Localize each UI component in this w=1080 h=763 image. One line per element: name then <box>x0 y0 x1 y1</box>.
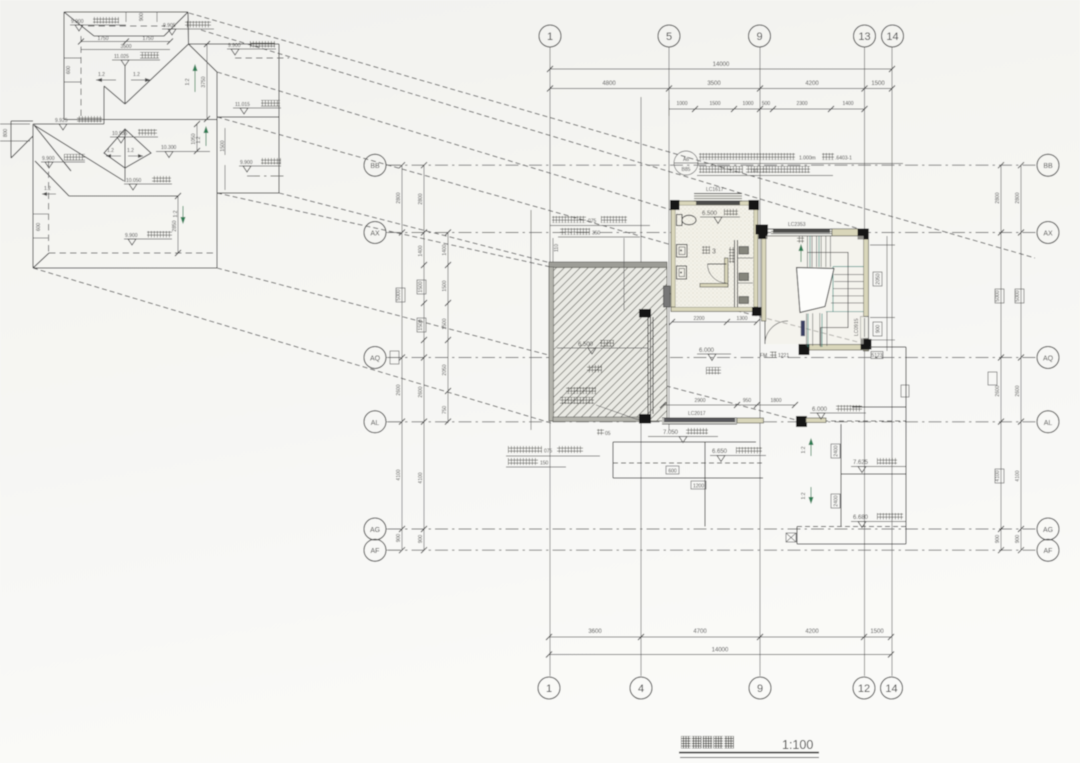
bubble AQ left <box>364 347 400 369</box>
pyramid roof diamond <box>104 129 151 168</box>
svg-text:1400: 1400 <box>418 245 424 256</box>
railing note at BB <box>674 151 903 176</box>
bottom dimension row 1: 3600/4700/4200/1500 <box>546 629 894 640</box>
flue wall lines <box>735 240 754 307</box>
rotated dim 2400 lower <box>831 494 840 508</box>
svg-text:6.000: 6.000 <box>812 407 828 413</box>
bubble 5 top <box>658 25 680 47</box>
svg-text:1: 1 <box>546 683 552 695</box>
left vertical dimension chain third <box>442 230 451 425</box>
svg-text:5: 5 <box>666 31 672 43</box>
far-left dim box <box>0 124 30 141</box>
svg-text:B85: B85 <box>682 167 691 173</box>
svg-text:1750: 1750 <box>142 36 153 42</box>
bathroom interior wall horizontal <box>700 284 728 288</box>
interior dim 2900/950/1800 <box>660 398 798 408</box>
bathroom interior wall vertical <box>725 258 729 287</box>
roof B dashed eave bottom <box>49 252 217 254</box>
svg-text:2800: 2800 <box>1015 192 1021 203</box>
roof B top edge <box>33 123 104 125</box>
dim chain right of stair <box>870 236 895 351</box>
top dimension row 2: 4800/3500/4200/1500 <box>547 81 895 92</box>
svg-text:075: 075 <box>588 219 597 225</box>
svg-text:1200: 1200 <box>693 484 704 490</box>
level marker 11.025 wuji <box>112 52 160 66</box>
svg-text:1.000m: 1.000m <box>799 156 816 162</box>
svg-text:2050: 2050 <box>442 364 448 375</box>
column stair TL <box>759 228 768 239</box>
svg-text:4700: 4700 <box>693 629 707 635</box>
grid line 9 (vertical) <box>759 47 761 676</box>
svg-text:900: 900 <box>139 13 145 22</box>
svg-text:5000: 5000 <box>995 290 1001 301</box>
svg-text:1500: 1500 <box>418 281 424 292</box>
grid row AL (dash-dot) <box>388 421 1036 423</box>
bubble AG left <box>364 518 400 540</box>
bubble AQ right <box>1037 347 1059 369</box>
wall piece right of LC2353 <box>832 229 859 236</box>
roof A bottom edge <box>64 119 217 121</box>
level marker 6.680 qipodian <box>851 513 906 528</box>
dim 600 vertical (roof B left) <box>33 214 48 238</box>
column bathroom right-mid <box>756 225 769 235</box>
level marker 6.000 qipodian (right) <box>810 405 866 419</box>
svg-text:2200: 2200 <box>693 316 704 322</box>
teal slope arrow down (right roof) <box>801 487 814 504</box>
svg-text:LC0915: LC0915 <box>854 318 860 336</box>
svg-text:14: 14 <box>886 31 898 43</box>
svg-text:6.500: 6.500 <box>702 211 718 217</box>
dim 2200/1300 below bathroom <box>669 316 760 325</box>
grid line 12/13 (vertical) <box>864 47 866 676</box>
svg-text:3600: 3600 <box>588 629 602 635</box>
svg-text:4100: 4100 <box>995 470 1001 481</box>
svg-text:9.905: 9.905 <box>163 23 176 29</box>
grid row AQ (dash-dot) <box>388 357 1036 359</box>
bubble 1 bottom <box>538 677 560 699</box>
column at partition bottom <box>639 414 651 424</box>
svg-text:1750: 1750 <box>97 36 108 42</box>
level marker 11.015 wuji (right wing) <box>233 100 281 114</box>
bubble 13 top <box>854 25 876 47</box>
bubble AL left <box>364 411 400 433</box>
column bathroom TR <box>749 200 760 210</box>
bubble AX left <box>364 222 400 244</box>
projection dashed line V2 <box>217 268 796 420</box>
pyramid center vertical <box>124 129 126 182</box>
roof B left edge <box>32 124 34 268</box>
svg-text:1.2: 1.2 <box>44 186 51 192</box>
svg-text:1400: 1400 <box>442 244 448 255</box>
grid line 14 (vertical) <box>891 47 893 676</box>
bubble 4 bottom <box>630 677 652 699</box>
roof A right wing top edge <box>189 43 280 45</box>
svg-text:2600: 2600 <box>396 384 402 395</box>
terrace interior window partition <box>648 317 653 414</box>
svg-text:6.680: 6.680 <box>853 515 869 521</box>
lower-right roof outline <box>797 347 906 544</box>
svg-text:14000: 14000 <box>713 62 730 68</box>
svg-text:4200: 4200 <box>805 81 819 87</box>
rotated dim 2400 upper <box>831 444 840 458</box>
svg-text:5000: 5000 <box>1015 290 1021 301</box>
svg-text:110: 110 <box>554 244 560 252</box>
teal slope arrow down (roof B mid) <box>173 206 186 224</box>
svg-text:3750: 3750 <box>201 76 207 87</box>
roof B ridge long horizontal <box>69 195 178 197</box>
svg-text:AL: AL <box>371 420 380 427</box>
svg-text:1050: 1050 <box>191 133 197 144</box>
svg-text:1500: 1500 <box>220 140 226 151</box>
svg-text:A6: A6 <box>683 157 689 163</box>
svg-text:4200: 4200 <box>805 629 819 635</box>
svg-text:1000: 1000 <box>742 101 753 107</box>
svg-text:AG: AG <box>370 527 380 534</box>
svg-text:800: 800 <box>3 129 9 138</box>
svg-text:13: 13 <box>858 31 870 43</box>
bubble 1 top <box>539 25 561 47</box>
level marker 9.900 qipodian (roof A left) <box>70 17 126 31</box>
projection dashed line U5 <box>217 193 551 267</box>
svg-text:1:100: 1:100 <box>782 738 813 752</box>
svg-text:LC2353: LC2353 <box>788 222 806 228</box>
terrace label <box>587 365 602 373</box>
svg-text:9: 9 <box>757 683 763 695</box>
level marker 7.050 chuangtai <box>597 428 718 443</box>
svg-text:2600: 2600 <box>995 385 1001 396</box>
svg-text:AQ: AQ <box>370 356 381 363</box>
roof A central V valley right <box>125 44 189 104</box>
slope arrows 1.2 (roof A) <box>96 72 151 82</box>
slope 1.2 arrow (roof B left) <box>42 186 56 196</box>
roof B secondary diagonal <box>34 125 71 171</box>
window LC2017 (room bottom) <box>662 411 737 424</box>
drainage note bottom-left <box>506 446 600 467</box>
grid line 5 (vertical) <box>668 47 670 430</box>
wall right of LC2017 <box>737 418 764 423</box>
stair up arrow <box>797 236 804 262</box>
level marker 10.935 wuji (pyramid) <box>110 129 158 143</box>
svg-text:9.925: 9.925 <box>55 118 68 124</box>
roof A hip right <box>164 12 188 36</box>
svg-text:1300: 1300 <box>736 316 747 322</box>
stairwell interior tint <box>766 236 864 344</box>
sink 1 <box>677 245 688 258</box>
svg-text:950: 950 <box>743 398 752 404</box>
level marker 6.650 qipodian <box>710 447 766 462</box>
roof B bottom edge <box>33 267 217 269</box>
svg-text:9: 9 <box>756 31 762 43</box>
svg-text:1500: 1500 <box>871 81 885 87</box>
svg-text:9.900: 9.900 <box>228 43 241 49</box>
roof A upper eave line <box>94 35 164 37</box>
dim 600 vertical (roof A left) <box>64 58 81 82</box>
svg-text:1800: 1800 <box>770 398 781 404</box>
svg-text:9.900: 9.900 <box>240 160 253 166</box>
svg-text:1000: 1000 <box>676 101 687 107</box>
terrace drainage note <box>560 387 650 421</box>
svg-text:1.2: 1.2 <box>127 148 134 154</box>
svg-text:AL: AL <box>1044 420 1053 427</box>
svg-text:150: 150 <box>540 461 549 467</box>
room level marker 6.000 <box>697 348 731 361</box>
small dim box below stair BR col <box>871 352 883 360</box>
level marker 10.300 <box>156 145 210 158</box>
svg-text:10.050: 10.050 <box>126 178 142 184</box>
svg-text:350: 350 <box>592 231 601 237</box>
svg-text:1.2: 1.2 <box>107 148 114 154</box>
svg-text:12: 12 <box>858 683 870 695</box>
svg-text:4: 4 <box>638 683 644 695</box>
svg-text:2600: 2600 <box>1015 385 1021 396</box>
svg-text:6.500: 6.500 <box>578 342 594 348</box>
top dimension row 1: total 14000 <box>547 62 895 72</box>
stair landing door-frame mark (navy) <box>801 321 805 337</box>
svg-text:1500: 1500 <box>870 629 884 635</box>
svg-text:AX: AX <box>1043 231 1053 238</box>
svg-text:075: 075 <box>544 449 553 455</box>
projection dashed line U2 <box>201 30 866 231</box>
level marker 10.050 wuji <box>124 176 172 190</box>
bubble AG right <box>1037 518 1059 540</box>
svg-text:LC1617: LC1617 <box>706 187 724 193</box>
svg-text:11.025: 11.025 <box>114 54 129 60</box>
svg-text:10.935: 10.935 <box>112 131 128 137</box>
lower-left roof edge lines <box>613 442 763 527</box>
svg-text:4100: 4100 <box>418 472 424 483</box>
svg-text:4100: 4100 <box>1015 470 1021 481</box>
stair stringer outline <box>807 252 848 347</box>
stair top wall window LC2353 <box>766 222 860 236</box>
terrace level marker 6.500 <box>557 340 648 354</box>
svg-text:3500: 3500 <box>120 44 131 50</box>
svg-text:10.300: 10.300 <box>161 145 177 151</box>
roof A central V valley left <box>104 86 125 104</box>
grid line 4 (vertical) <box>640 97 642 676</box>
svg-text:2900: 2900 <box>694 398 705 404</box>
teal slope arrow up (roof B mid) <box>196 126 209 146</box>
svg-text:900: 900 <box>876 325 882 334</box>
svg-text:750: 750 <box>442 406 448 415</box>
svg-text:FM: FM <box>760 353 767 359</box>
top dimension row 3: sub dims 1000/1500/1000/500/2300/1400 <box>669 100 868 116</box>
svg-text:2050: 2050 <box>876 273 882 284</box>
svg-text:900: 900 <box>418 535 424 544</box>
dim 3500 (roof A) <box>81 44 170 50</box>
stair teal tread accents <box>808 236 864 347</box>
svg-text:BB: BB <box>1043 163 1053 170</box>
stair treads down-run vertical lines <box>807 312 827 346</box>
far-left wing outline <box>11 121 33 158</box>
svg-text:1500: 1500 <box>442 280 448 291</box>
stair treads up-run vertical lines <box>807 236 830 267</box>
wall stub right of AL column <box>806 418 826 423</box>
stair right wall <box>861 229 869 351</box>
bubble BB right <box>1037 154 1059 176</box>
roof A right wing bottom eave <box>217 192 279 194</box>
flue shaft 3 <box>739 297 749 304</box>
column stair BR <box>861 339 872 350</box>
svg-text:900: 900 <box>396 534 402 543</box>
bathroom door <box>708 264 727 283</box>
projection dashed line U4 <box>217 117 672 245</box>
roof A right wing right edge <box>278 44 280 193</box>
svg-text:1500: 1500 <box>709 101 720 107</box>
svg-text:1:2: 1:2 <box>801 492 807 499</box>
teal slope arrow up (right roof) <box>801 438 814 456</box>
bubble 14 bottom <box>881 677 903 699</box>
small dim text 600 <box>666 466 679 475</box>
svg-text:05: 05 <box>605 431 611 437</box>
svg-text:14000: 14000 <box>712 648 729 654</box>
chain text boxes <box>390 280 1024 483</box>
svg-text:7.625: 7.625 <box>853 460 869 466</box>
toilet <box>677 215 697 226</box>
grid row AX (dash-dot) <box>388 232 1036 234</box>
terrace hatched area <box>549 262 667 422</box>
svg-text:1.2: 1.2 <box>133 72 140 78</box>
svg-text:AQ: AQ <box>1043 356 1054 363</box>
flue shaft 2 <box>739 273 749 281</box>
column bathroom TL <box>670 200 680 210</box>
roof A dashed ridge offset <box>88 25 165 27</box>
svg-text:2400: 2400 <box>834 495 840 506</box>
svg-text:AF: AF <box>371 548 380 555</box>
vertical dim right wing <box>220 128 226 190</box>
bubble BB left <box>364 154 400 176</box>
window LC1617 (bathroom top) <box>694 187 742 205</box>
projection dashed line U3 <box>217 72 757 236</box>
roof B corner hip bottom-left <box>33 253 49 268</box>
roof A valley diagonal to wing <box>189 44 218 72</box>
projection dashed line U1 <box>189 13 1035 258</box>
svg-text:5000: 5000 <box>396 289 402 300</box>
svg-text:4100: 4100 <box>396 469 402 480</box>
svg-text:BB: BB <box>370 163 380 170</box>
projection dashed line V1 <box>33 268 551 423</box>
svg-text:2800: 2800 <box>396 192 402 203</box>
dim 1750+1750 (roof A) <box>78 36 173 45</box>
stair treads right-run horizontal lines <box>831 275 864 303</box>
bubble 12 bottom <box>853 677 875 699</box>
roof A right wing ridge <box>217 116 279 118</box>
slope arrow teal up (between wings) <box>185 64 198 92</box>
column at partition top <box>639 309 651 318</box>
svg-text:1:2: 1:2 <box>185 78 191 85</box>
shaft label rotated <box>729 247 735 263</box>
svg-text:1: 1 <box>547 31 553 43</box>
svg-text:AX: AX <box>370 231 380 238</box>
svg-text:2800: 2800 <box>418 193 424 204</box>
svg-text:2400: 2400 <box>834 445 840 456</box>
vertical dim chain x207 (roof A) <box>201 41 210 122</box>
svg-text:5123: 5123 <box>871 353 882 359</box>
small dim text 1200 <box>691 481 706 490</box>
svg-text:1221: 1221 <box>778 353 789 359</box>
roof A dashed eave vertical <box>80 36 82 120</box>
svg-text:2800: 2800 <box>995 192 1001 203</box>
svg-text:4800: 4800 <box>602 81 616 87</box>
roof B small hip left <box>35 161 69 196</box>
bubble 9 bottom <box>749 677 771 699</box>
bubble AF left <box>364 539 400 561</box>
svg-text:900: 900 <box>995 535 1001 544</box>
aux vertical line left of grid 1 <box>530 210 532 430</box>
vertical dim chain (roof B right) <box>191 121 200 154</box>
svg-text:3500: 3500 <box>707 81 721 87</box>
right vertical dimension chain outer <box>1015 162 1024 553</box>
roof B right edge <box>216 193 218 268</box>
roof A right step vertical <box>187 12 190 44</box>
column stair BL <box>799 344 810 355</box>
projection dashed line U6 <box>279 193 858 342</box>
svg-text:1400: 1400 <box>842 101 853 107</box>
svg-text:LC2017: LC2017 <box>688 411 706 417</box>
right vertical dimension chain inner <box>995 162 1004 553</box>
column stair TR <box>858 229 869 240</box>
level marker 9.900 qipodian (right wing lower) <box>239 158 284 176</box>
grid row AG (dash-dot) <box>388 528 1036 530</box>
level marker 9.925 qipodian <box>54 116 103 130</box>
svg-text:1:2: 1:2 <box>801 446 807 453</box>
svg-text:1.2: 1.2 <box>98 72 105 78</box>
small dim box top (roof A) <box>126 12 157 22</box>
vertical dim chain (roof B lower right) <box>172 193 181 256</box>
svg-text:2600: 2600 <box>418 386 424 397</box>
bubble AF right <box>1037 539 1059 561</box>
svg-text:.6403-1: .6403-1 <box>835 156 852 162</box>
svg-text:3: 3 <box>712 249 716 256</box>
grid line 1 (vertical) <box>549 47 551 676</box>
bubble 9 top <box>749 25 771 47</box>
svg-text:14: 14 <box>885 683 897 695</box>
roof B dashed vertical <box>48 161 50 253</box>
svg-text:600: 600 <box>36 223 42 232</box>
grid row AF (dash-dot) <box>388 549 1036 551</box>
bathroom outer walls <box>671 201 758 312</box>
svg-text:6.650: 6.650 <box>712 449 728 455</box>
stair bottom wall <box>802 345 869 351</box>
svg-text:110: 110 <box>750 169 758 175</box>
roof A ridge vertical <box>124 66 126 104</box>
bubble AX right <box>1037 222 1059 244</box>
roof B main valley diagonal <box>34 125 124 181</box>
svg-text:11.015: 11.015 <box>235 102 250 108</box>
column grid9/AL <box>796 416 807 427</box>
drainage note upper-left <box>550 216 650 310</box>
stair left wall piece <box>762 236 767 321</box>
svg-text:900: 900 <box>1015 535 1021 544</box>
level marker 9.905 qipodian (roof A right) <box>162 21 214 35</box>
door FM label <box>760 352 789 360</box>
svg-text:7.050: 7.050 <box>663 430 679 436</box>
stair void polygon <box>797 268 835 313</box>
level marker 9.900 qipodian (roof B bottom) <box>124 231 172 245</box>
svg-text:9.900: 9.900 <box>71 19 84 25</box>
svg-text:9.900: 9.900 <box>125 233 138 239</box>
title underline double <box>679 736 819 758</box>
sink 2 <box>677 266 687 279</box>
roof A hip left <box>64 12 94 36</box>
svg-text:500: 500 <box>762 101 771 107</box>
left vertical dimension chain inner <box>418 162 427 553</box>
bathroom level marker 6.500 <box>700 209 740 224</box>
bottom dimension row 2: total 14000 <box>546 648 894 658</box>
svg-text:600: 600 <box>66 66 72 75</box>
svg-text:2850: 2850 <box>172 220 178 231</box>
svg-text:AF: AF <box>1044 548 1053 555</box>
roof A left edge <box>63 12 65 120</box>
